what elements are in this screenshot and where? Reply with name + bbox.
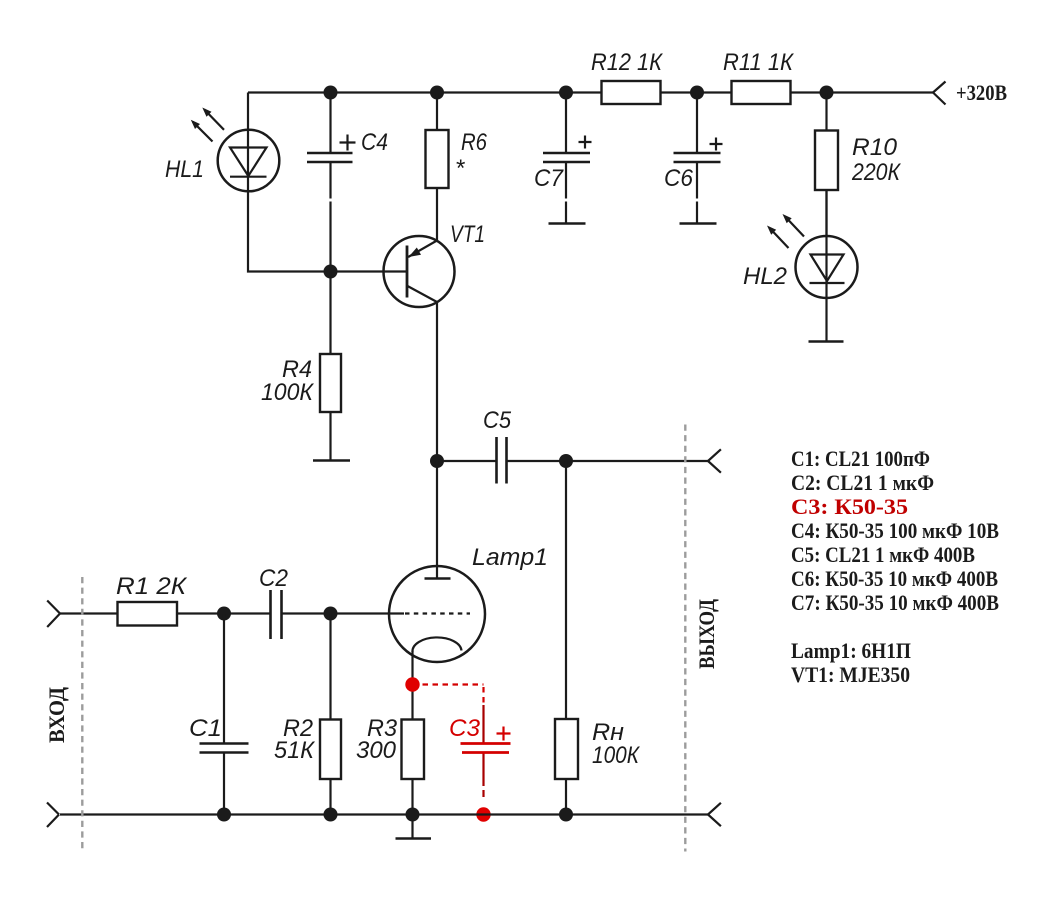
svg-text:C5: CL21 1 мкФ 400В: C5: CL21 1 мкФ 400В <box>791 542 975 567</box>
node junction dots on bottom rail <box>217 808 573 822</box>
HL1 light arrows <box>191 108 224 142</box>
svg-text:R12 1К: R12 1К <box>591 49 664 76</box>
resistor R6 <box>426 93 449 241</box>
resistor R12 <box>602 81 661 104</box>
svg-text:C7: C7 <box>534 165 565 192</box>
svg-text:ВХОД: ВХОД <box>44 687 69 743</box>
resistor Rn <box>555 461 578 815</box>
resistor R1 <box>118 602 271 626</box>
svg-text:Lamp1: 6Н1П: Lamp1: 6Н1П <box>791 638 911 663</box>
svg-text:C3: C3 <box>449 715 481 742</box>
svg-text:C3: К50-35: C3: К50-35 <box>791 494 908 519</box>
wire input to R1 <box>60 612 118 614</box>
svg-text:C5: C5 <box>483 407 512 434</box>
output bottom chevron <box>708 803 721 826</box>
resistor R4 <box>320 272 341 461</box>
capacitor C4 <box>307 93 356 272</box>
R4 label <box>261 356 315 406</box>
svg-text:R6: R6 <box>461 129 488 156</box>
svg-text:C2: C2 <box>259 565 288 592</box>
input boundary dashed line <box>81 577 83 851</box>
svg-text:220К: 220К <box>851 159 902 186</box>
resistor R3 <box>402 720 425 815</box>
resistor R11 <box>732 81 791 104</box>
ground under R3 <box>396 815 432 839</box>
svg-text:300: 300 <box>356 737 397 764</box>
wire VT1 base <box>331 270 408 272</box>
R6 label <box>455 129 488 182</box>
node junction R1/C1/C2 <box>217 607 231 621</box>
C3 rail red dot <box>476 807 490 821</box>
R3 label <box>356 715 398 764</box>
capacitor C5 <box>437 437 566 484</box>
LED HL2 <box>796 190 858 342</box>
node junction dots on top rail <box>324 86 834 100</box>
capacitor C3 (red) <box>413 685 511 798</box>
svg-text:51К: 51К <box>274 737 316 764</box>
wire Lamp1 cathode <box>411 651 413 720</box>
resistor R2 <box>320 614 341 815</box>
input top chevron <box>47 601 60 628</box>
svg-text:R1 2К: R1 2К <box>116 573 188 600</box>
svg-text:HL1: HL1 <box>165 156 204 183</box>
wire bottom rail <box>60 813 708 815</box>
svg-text:Lamp1: Lamp1 <box>472 544 548 571</box>
svg-text:*: * <box>455 155 465 182</box>
R2 label <box>274 715 316 764</box>
transistor VT1 <box>384 236 455 307</box>
node junction C2/R2/grid <box>324 607 338 621</box>
svg-text:C6: C6 <box>664 165 694 192</box>
ground under R4 <box>313 459 350 462</box>
svg-text:C1: CL21 100пФ: C1: CL21 100пФ <box>791 446 930 471</box>
svg-text:HL2: HL2 <box>743 263 787 290</box>
parts list <box>791 446 999 687</box>
svg-text:R11 1К: R11 1К <box>723 49 795 76</box>
C3 cathode red dot <box>405 677 419 691</box>
input bottom chevron <box>47 803 59 828</box>
ground under HL2 <box>809 340 844 343</box>
svg-text:C2: CL21 1 мкФ: C2: CL21 1 мкФ <box>791 470 934 495</box>
wire top +320V rail <box>248 91 933 93</box>
ground under C7 <box>549 222 586 225</box>
output boundary dashed line <box>684 425 686 852</box>
node junction C5/Rn <box>559 454 573 468</box>
output top chevron <box>708 449 721 472</box>
svg-text:ВЫХОД: ВЫХОД <box>694 599 719 669</box>
capacitor C1 <box>200 614 249 815</box>
LED HL1 <box>218 93 331 272</box>
ground under C6 <box>680 222 717 225</box>
svg-text:C7: К50-35 10 мкФ 400В: C7: К50-35 10 мкФ 400В <box>791 590 999 615</box>
HL2 light arrows <box>767 214 804 248</box>
svg-text:VT1: MJE350: VT1: MJE350 <box>791 662 910 687</box>
capacitor C6 <box>674 93 723 224</box>
node junction base/C4/R4 <box>324 265 338 279</box>
node junction anode/C5 <box>430 454 444 468</box>
svg-text:100К: 100К <box>261 379 315 406</box>
capacitor C7 <box>543 93 592 224</box>
svg-text:C4: К50-35 100 мкФ 10В: C4: К50-35 100 мкФ 10В <box>791 518 999 543</box>
triode Lamp1 <box>389 461 485 662</box>
svg-text:C4: C4 <box>361 129 388 156</box>
wire VT1 collector to node <box>436 302 438 461</box>
capacitor C2 <box>271 590 405 639</box>
R10 label <box>851 134 902 186</box>
svg-text:+320В: +320В <box>956 80 1007 105</box>
svg-text:100К: 100К <box>592 742 641 769</box>
Rn label <box>592 719 641 769</box>
svg-text:C6: К50-35 10 мкФ 400В: C6: К50-35 10 мкФ 400В <box>791 566 998 591</box>
svg-text:VT1: VT1 <box>450 221 485 248</box>
svg-text:C1: C1 <box>189 715 222 742</box>
svg-text:R10: R10 <box>852 134 898 161</box>
resistor R10 <box>815 93 838 237</box>
+320B terminal chevron <box>933 82 946 105</box>
wire to output top <box>566 460 708 462</box>
